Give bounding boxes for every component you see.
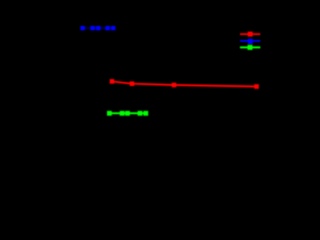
legend entry 2 (blue) line sample <box>240 40 260 42</box>
series 1 (blue) marker point 1 <box>80 26 84 30</box>
series 1 (blue) marker point 5 <box>111 26 115 30</box>
series 2 (red) marker point 3 <box>172 83 177 88</box>
series 3 (green) marker point 4 <box>138 111 143 116</box>
series 2 (red) marker point 2 <box>130 81 135 86</box>
legend entry 3 (green) line sample <box>240 46 260 48</box>
legend entry 1 (red) marker sample <box>248 32 253 37</box>
series 1 (blue) marker point 4 <box>105 26 109 30</box>
series 1 (blue) connecting line <box>83 27 114 29</box>
legend entry 1 (red) line sample <box>240 33 260 35</box>
series 1 (blue) marker point 2 <box>91 26 95 30</box>
series 3 (green) marker point 1 <box>107 111 112 116</box>
series 3 (green) marker point 5 <box>143 111 148 116</box>
series 2 (red) connecting line <box>112 81 257 86</box>
legend entry 2 (blue) marker sample <box>248 39 253 44</box>
legend entry 3 (green) marker sample <box>248 45 253 50</box>
series 3 (green) connecting line <box>109 112 145 114</box>
series 3 (green) marker point 2 <box>120 111 125 116</box>
series 2 (red) marker point 1 <box>110 79 115 84</box>
series 1 (blue) marker point 3 <box>96 26 100 30</box>
series 3 (green) marker point 3 <box>125 111 130 116</box>
series 2 (red) marker point 4 <box>254 84 259 89</box>
